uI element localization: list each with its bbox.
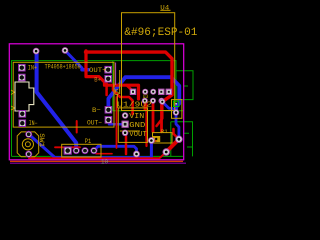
svg-text:IN+: IN+ bbox=[28, 65, 38, 72]
svg-text:10: 10 bbox=[101, 158, 108, 165]
svg-text:R1: R1 bbox=[161, 128, 169, 135]
svg-text:5: 5 bbox=[114, 89, 119, 98]
svg-text:IN−: IN− bbox=[29, 120, 38, 127]
svg-text:U3: U3 bbox=[143, 94, 149, 100]
svg-text:TP4058+18650: TP4058+18650 bbox=[45, 64, 81, 71]
svg-text:SW1: SW1 bbox=[38, 133, 45, 148]
svg-text:U4: U4 bbox=[160, 5, 169, 12]
svg-text:U1/9U2: U1/9U2 bbox=[117, 101, 152, 109]
svg-text:OUT+: OUT+ bbox=[89, 67, 107, 74]
svg-text:P1: P1 bbox=[85, 138, 92, 145]
svg-text:VOUT: VOUT bbox=[129, 131, 147, 139]
svg-text:&#96;ESP-01: &#96;ESP-01 bbox=[124, 27, 197, 39]
svg-text:B+: B+ bbox=[94, 76, 101, 83]
svg-text:GND: GND bbox=[129, 122, 146, 130]
svg-text:VIN: VIN bbox=[129, 113, 144, 121]
svg-text:OUT−: OUT− bbox=[87, 120, 102, 127]
svg-text:B−: B− bbox=[92, 107, 101, 114]
